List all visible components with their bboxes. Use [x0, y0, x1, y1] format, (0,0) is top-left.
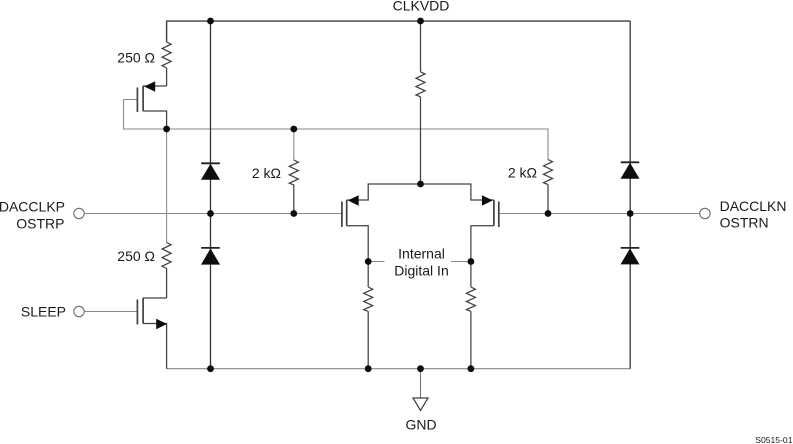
wire GND stem — [420, 369, 422, 398]
diode D2 lower left — [201, 248, 220, 265]
node: second rail / left 2k — [290, 126, 297, 133]
resistor R1 250ohm upper — [162, 42, 171, 86]
svg-text:Internal: Internal — [398, 245, 445, 261]
node: right internal tap — [468, 258, 475, 265]
wire left branch vertical x167 — [166, 129, 168, 243]
transistor Q1 (upper left) — [137, 86, 166, 129]
arrow on Q1 drain — [144, 81, 155, 92]
svg-text:CLKVDD: CLKVDD — [393, 0, 450, 13]
node: bottom rail / GND — [417, 365, 424, 372]
diode D3 upper right — [621, 162, 640, 179]
svg-text:250 Ω: 250 Ω — [117, 248, 155, 264]
node: main line / right 2k — [545, 210, 552, 217]
wire internal digital in connectors — [368, 261, 471, 263]
node: main line / right diode chain — [627, 210, 634, 217]
differential pair top link — [347, 184, 494, 200]
arrow on Q3 drain — [348, 195, 359, 206]
terminal DACCLKP/OSTRP — [74, 208, 84, 218]
resistor R5 (left source degeneration) — [364, 262, 373, 369]
svg-text:OSTRP: OSTRP — [16, 216, 64, 232]
wire SLEEP gate lead — [84, 311, 137, 313]
svg-text:2 kΩ: 2 kΩ — [252, 165, 281, 181]
wire main line Q4 gate to DACCLKN — [499, 213, 699, 215]
node: main line / left diode chain — [207, 210, 214, 217]
svg-text:Digital In: Digital In — [394, 263, 448, 279]
diode chain right (x=630) wire — [629, 21, 631, 369]
terminal DACCLKN/OSTRN — [700, 208, 710, 218]
node: bottom rail / left diode chain — [207, 365, 214, 372]
ground symbol — [413, 398, 428, 410]
resistor R2 250ohm lower — [162, 243, 171, 299]
arrow on Q4 drain — [482, 195, 493, 206]
svg-text:250 Ω: 250 Ω — [117, 49, 155, 65]
node: left internal tap — [365, 258, 372, 265]
node: top rail / left diode chain — [207, 18, 214, 25]
node: pair drain / center resistor — [417, 181, 424, 188]
svg-text:2 kΩ: 2 kΩ — [508, 164, 537, 180]
wire left 2k top lead — [293, 129, 295, 160]
transistor Q2 (SLEEP switch) — [137, 298, 166, 369]
wire bottom ground rail — [167, 368, 631, 370]
node: second rail / Q1 source — [163, 126, 170, 133]
wire main line DACCLKP to Q3 gate — [85, 213, 342, 215]
resistor R4 center (CLKVDD to pair) — [416, 21, 425, 184]
node: top rail / center resistor — [417, 18, 424, 25]
resistor R7 right 2kohm — [544, 160, 553, 214]
diode D1 upper left — [201, 163, 220, 180]
transistor Q4 (right of pair) — [471, 200, 499, 262]
svg-text:OSTRN: OSTRN — [720, 215, 769, 231]
svg-text:DACCLKP: DACCLKP — [0, 199, 65, 215]
arrow on Q2 source — [156, 319, 167, 330]
svg-text:DACCLKN: DACCLKN — [720, 198, 787, 214]
node: main line / left 2k — [290, 210, 297, 217]
wire second rail (Q1 gate net) — [124, 100, 549, 160]
diode D4 lower right — [621, 248, 640, 265]
svg-text:S0515-01: S0515-01 — [755, 435, 792, 444]
node: bottom rail / right source — [468, 365, 475, 372]
svg-text:SLEEP: SLEEP — [21, 303, 66, 319]
transistor Q3 (left of pair) — [342, 200, 368, 262]
node: bottom rail / left source — [365, 365, 372, 372]
diode chain left (x=210.5) wire — [210, 21, 212, 369]
net CLKVDD top rail — [167, 21, 631, 42]
resistor R3 left 2kohm — [289, 160, 298, 214]
resistor R6 (right source degeneration) — [466, 262, 475, 369]
svg-text:GND: GND — [405, 416, 436, 432]
terminal SLEEP — [74, 306, 84, 316]
